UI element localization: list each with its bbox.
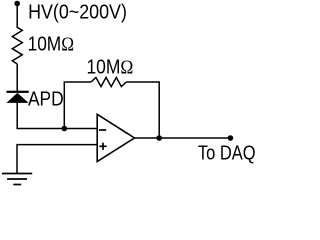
- svg-text:HV(0~200V): HV(0~200V): [28, 2, 127, 24]
- node HV input terminal: [14, 1, 20, 7]
- resistor R2 10MOhm feedback: [91, 77, 126, 86]
- wire R1 to APD cathode: [16, 64, 18, 92]
- wire feedback left leg: [64, 82, 91, 129]
- op-amp inverting pin mark minus: [99, 129, 106, 131]
- resistor R1 10MOhm bias: [12, 27, 22, 64]
- diode APD anode triangle: [6, 93, 28, 103]
- svg-text:To DAQ: To DAQ: [198, 141, 255, 164]
- wire non-inverting input to ground: [17, 145, 97, 173]
- wire HV node to R1: [16, 4, 18, 29]
- op-amp non-inverting pin mark plus: [99, 143, 106, 150]
- junction dot inverting node: [62, 126, 68, 132]
- wire APD anode to inverting input: [17, 103, 97, 129]
- svg-text:10MΩ: 10MΩ: [28, 33, 75, 57]
- svg-text:APD: APD: [28, 87, 64, 109]
- diode APD cathode bar: [7, 91, 29, 93]
- op-amp U1 triangle: [97, 114, 134, 161]
- wire feedback top right and right leg: [126, 82, 159, 138]
- svg-text:10MΩ: 10MΩ: [86, 55, 133, 78]
- wire output: [135, 137, 231, 139]
- ground symbol: [2, 174, 32, 185]
- junction dot feedback to output: [156, 135, 162, 141]
- node output terminal: [228, 135, 234, 141]
